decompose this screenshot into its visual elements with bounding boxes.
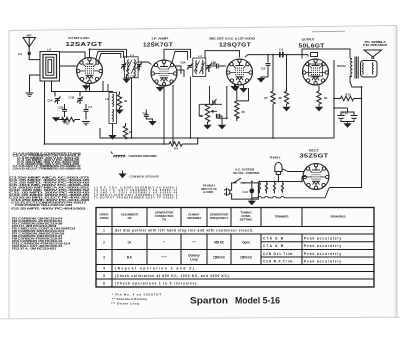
- resistor R-9: [317, 86, 328, 107]
- ground (antenna): [26, 93, 34, 96]
- svg-text:12SQ7GT: 12SQ7GT: [272, 185, 274, 195]
- resistor R-8: [278, 55, 288, 107]
- bus (B-) y=138: [132, 60, 335, 138]
- svg-text:Peak accurately: Peak accurately: [304, 244, 341, 248]
- tube U2 12SK7GT: [151, 60, 177, 86]
- svg-text:COMMON GROUND: COMMON GROUND: [130, 175, 159, 179]
- svg-text:A.C. SYSTEM: A.C. SYSTEM: [235, 168, 254, 172]
- pilot lamp PI-6002-2: [270, 156, 282, 182]
- wire U4 plate to output transformer: [302, 49, 350, 59]
- table footnotes: [111, 293, 161, 306]
- capacitor C-4: [143, 110, 153, 121]
- ground (R-5): [203, 125, 211, 130]
- capacitor C-6: [84, 104, 93, 120]
- svg-text:C-12: C-12: [243, 190, 249, 194]
- svg-text:C2B Det.Trim.: C2B Det.Trim.: [263, 252, 294, 256]
- svg-text:Loop: Loop: [190, 258, 198, 262]
- svg-text:C6A: C6A: [181, 61, 186, 65]
- scan artifact line: [312, 30, 345, 33]
- resistor R-1: [57, 117, 80, 125]
- ground (R-9): [315, 107, 323, 112]
- stage label 2ND DET AVC 1ST AUDIO: [209, 37, 256, 41]
- resistor R-2: [117, 92, 127, 108]
- svg-text:P.M. SPEAKER: P.M. SPEAKER: [363, 43, 387, 47]
- tube label 12SA7GT: [66, 42, 103, 48]
- trimmer C-7A: [121, 63, 127, 71]
- svg-text:REMARKS: REMARKS: [331, 215, 346, 219]
- heater return wire with hops: [252, 188, 329, 198]
- ground (R-2): [115, 108, 123, 115]
- speaker label: [363, 40, 387, 47]
- svg-text:C5B: C5B: [59, 106, 64, 110]
- svg-text:35Z5GT: 35Z5GT: [300, 154, 329, 160]
- resistor R-3: [123, 123, 132, 139]
- svg-text:** Standard Dummy: ** Standard Dummy: [112, 297, 147, 301]
- tube U3 12SQ7GT: [227, 59, 253, 85]
- svg-text:SETTING: SETTING: [240, 218, 253, 222]
- svg-text:ON VOL. CONTROL: ON VOL. CONTROL: [233, 171, 261, 175]
- heater labels vertical: [257, 185, 282, 195]
- capacitor C-11 electrolytics: [334, 108, 358, 123]
- svg-text:RECT.: RECT.: [309, 149, 319, 153]
- svg-text:Peak accurately: Peak accurately: [304, 252, 341, 256]
- svg-text:Open: Open: [242, 241, 250, 245]
- ground (C-10): [257, 77, 268, 83]
- IF transformer L-2: [193, 54, 206, 77]
- trimmer C-7B: [131, 63, 142, 79]
- svg-text:*** Driver Loop.: *** Driver Loop.: [111, 302, 140, 306]
- capacitor C-11a: [216, 114, 222, 125]
- svg-text:25C049: 25C049: [337, 64, 346, 68]
- svg-text:C4A: C4A: [211, 62, 216, 66]
- wire L-2 right to U3 diode: [209, 66, 216, 72]
- svg-text:ANT.: ANT.: [26, 34, 32, 38]
- trimmer C-6A: [181, 61, 193, 70]
- svg-text:1500 KC: 1500 KC: [213, 256, 226, 260]
- svg-text:C10: C10: [261, 67, 266, 71]
- resistor R-6: [235, 101, 246, 121]
- AC input box: [232, 183, 259, 199]
- ground (C-6): [82, 122, 90, 125]
- svg-text:12SK7GT: 12SK7GT: [264, 185, 266, 195]
- svg-text:R13 37 A. -3M BC219-621: R13 37 A. -3M BC219-621: [12, 248, 57, 251]
- svg-text:Set dial pointer with left han: Set dial pointer with left hand stop lin…: [115, 229, 253, 233]
- IF transformer L-1: [125, 53, 139, 78]
- wire L-1 to U2: [138, 62, 152, 65]
- svg-text:C-9: C-9: [18, 52, 23, 56]
- svg-text:C8-A,B ADJ.I.F. TRIMMERS AS-6: C8-A,B ADJ.I.F. TRIMMERS AS-63880-48: [13, 167, 82, 170]
- alignment table: [96, 208, 374, 288]
- svg-text:ATION: ATION: [100, 216, 110, 220]
- svg-text:C2A R.F.Trim.: C2A R.F.Trim.: [263, 259, 294, 263]
- svg-text:C7A & B: C7A & B: [263, 237, 284, 241]
- wire U1 grid top: [60, 52, 86, 59]
- capacitor C-5B: [59, 104, 67, 117]
- svg-text:* * *: * * *: [162, 256, 168, 260]
- wire speaker return: [329, 87, 362, 188]
- ground (C-5B): [61, 120, 69, 123]
- svg-text:C-1B: C-1B: [69, 96, 75, 100]
- svg-text:L-B: L-B: [105, 97, 109, 101]
- svg-text:R.F.: R.F.: [127, 256, 132, 260]
- resistor R-4: [169, 142, 182, 151]
- svg-text:& CORD: & CORD: [203, 190, 213, 194]
- svg-text:PI-6002-2: PI-6002-2: [270, 156, 281, 160]
- svg-text:C5A: C5A: [48, 99, 53, 103]
- parts list block C coils: [94, 187, 178, 200]
- wire loop to ground: [30, 75, 41, 93]
- ground (C-11a): [218, 125, 226, 130]
- rect label: [300, 149, 329, 160]
- ground (R-6): [230, 84, 238, 91]
- svg-text:12SK7GT: 12SK7GT: [143, 42, 173, 48]
- avc arrow: [239, 85, 247, 93]
- loop antenna L-A: [40, 48, 60, 81]
- svg-text:50L6GT: 50L6GT: [280, 185, 282, 193]
- AC input plug: [224, 188, 232, 196]
- output transformer T-1: [350, 57, 362, 88]
- svg-text:Peak accurately: Peak accurately: [304, 259, 341, 263]
- trimmer C-5A: [48, 97, 61, 105]
- wire U3 plate B+: [245, 55, 308, 57]
- stage label I.F. AMP: [152, 37, 170, 41]
- ground (osc coil): [108, 124, 116, 140]
- volume control R-5: [199, 104, 217, 124]
- oscillator box wires: [55, 81, 113, 97]
- ground (C-11): [343, 123, 351, 128]
- ground (C-12): [248, 201, 256, 206]
- trimmer C-6B: [206, 61, 216, 73]
- svg-text:(Check calibration at 600 KC,: (Check calibration at 600 KC, 1000 KC, a…: [115, 274, 230, 278]
- AC system label: [233, 168, 261, 176]
- AC input label: [201, 184, 217, 195]
- capacitor C-8: [279, 48, 284, 58]
- legend common ground: [118, 171, 158, 179]
- ground (U3 cathode): [231, 85, 239, 92]
- volume control cluster wires: [199, 86, 248, 118]
- svg-text:(Check operations 1 to 5 inclu: (Check operations 1 to 5 inclusive).: [115, 282, 198, 286]
- svg-text:12SA7GT: 12SA7GT: [66, 42, 103, 48]
- antenna ANT: [23, 34, 40, 60]
- svg-text:Sparton: Sparton: [190, 296, 228, 306]
- capacitor C-4A: [211, 62, 226, 69]
- wire L-2 to U3 top: [205, 51, 240, 58]
- capacitor C-9: [18, 52, 31, 56]
- tube U5 35Z5GT: [303, 164, 329, 190]
- osc coil L-B: [105, 93, 117, 124]
- wire L-2 drop to bus: [190, 77, 192, 139]
- ground (R-1): [52, 117, 60, 122]
- svg-text:Peak accurately: Peak accurately: [304, 237, 341, 241]
- svg-text:12SA7GT: 12SA7GT: [257, 185, 260, 195]
- svg-text:12SQ7GT: 12SQ7GT: [219, 42, 251, 48]
- svg-text:GS 25 MFR. 400V PC-4041: GS 25 MFR. 400V PC-4041/303: [11, 208, 87, 211]
- svg-text:1500 KC: 1500 KC: [240, 256, 253, 260]
- svg-text:TO: TO: [162, 218, 167, 222]
- svg-text:C-8: C-8: [279, 48, 284, 52]
- svg-text:2ND. DET. A.V.C. & 1ST AUDIO: 2ND. DET. A.V.C. & 1ST AUDIO: [209, 37, 256, 41]
- svg-text:50L6GT: 50L6GT: [299, 43, 325, 49]
- svg-text:* Pin No. 4 on 12SA7GT: * Pin No. 4 on 12SA7GT: [112, 293, 161, 297]
- wire L-A bottom to osc: [52, 81, 81, 97]
- ground (U2 cathode): [156, 86, 164, 92]
- wires U2 to L-2: [164, 49, 191, 77]
- tube U4 50L6GT: [303, 53, 329, 86]
- svg-text:TRIMMER: TRIMMER: [275, 215, 290, 219]
- svg-text:FREQUENCY: FREQUENCY: [210, 216, 230, 220]
- heater bus: [258, 177, 306, 182]
- ground (R-8): [282, 107, 290, 112]
- ground (U1 cathode): [82, 83, 90, 90]
- svg-text:ANTENNA: ANTENNA: [187, 216, 202, 220]
- svg-text:I.F. AMP.: I.F. AMP.: [152, 37, 170, 41]
- svg-text:C-6: C-6: [88, 105, 93, 109]
- tube label 12SQ7GT: [219, 42, 251, 48]
- wire lamp to U5: [282, 169, 304, 172]
- svg-text:1ST DET & OSC.: 1ST DET & OSC.: [68, 36, 90, 40]
- wire U2 screen drop: [172, 85, 174, 144]
- parts list block A: [13, 153, 82, 171]
- svg-text:456 KC: 456 KC: [214, 241, 225, 245]
- stage label OUTPUT: [302, 38, 315, 42]
- tube label 12SK7GT: [143, 42, 173, 48]
- svg-text:T1 OUTPUT TRANSFORMER ASSY T: T1 OUTPUT TRANSFORMER ASSY TF-63892-2: [94, 197, 178, 200]
- capacitor C-3: [212, 99, 217, 106]
- svg-text:Model 5-16: Model 5-16: [235, 296, 280, 306]
- svg-text:OUTPUT: OUTPUT: [302, 38, 315, 42]
- speaker cone: [364, 50, 382, 59]
- wire L-1 bottom down to bus: [131, 78, 133, 138]
- wire long vertical from L-A bottom: [44, 81, 46, 144]
- wire U2 cathode drop: [163, 85, 165, 145]
- parts list block D resistors: [12, 218, 76, 251]
- svg-text:OF: OF: [127, 216, 131, 220]
- wire y=144 with R-4: [45, 143, 170, 145]
- ground (L-1): [122, 74, 130, 83]
- svg-text:I.F.: I.F.: [128, 241, 132, 245]
- tube U1 12SA7GT: [77, 58, 103, 84]
- bus segment left: [100, 128, 132, 138]
- wire R-4 to power: [182, 138, 198, 144]
- svg-text:R-4: R-4: [174, 147, 179, 151]
- heater drops: [258, 182, 283, 193]
- capacitor C-10: [261, 55, 271, 77]
- parts list block B: [9, 177, 91, 211]
- svg-text:C7A & B: C7A & B: [263, 244, 284, 248]
- wires U1 to L-1 (nested corners): [90, 49, 127, 63]
- capacitor C-13 label: [337, 64, 346, 68]
- wire L-A right to tube1: [60, 65, 77, 67]
- legend chassis ground: [111, 152, 157, 158]
- ground (C-4): [148, 121, 156, 126]
- speaker voice coil: [361, 61, 378, 78]
- trimmer C-1B: [69, 96, 83, 105]
- title Sparton Model 5-16: [190, 296, 280, 306]
- switch on box: [234, 178, 246, 184]
- capacitor C-12: [243, 183, 255, 201]
- resistor R-7: [264, 55, 275, 138]
- tube label 50L6GT: [299, 43, 325, 49]
- resistor R-10: [334, 93, 362, 101]
- stage label 1ST DET & OSC: [68, 36, 90, 40]
- svg-text:CHASSIS GROUND: CHASSIS GROUND: [129, 154, 157, 158]
